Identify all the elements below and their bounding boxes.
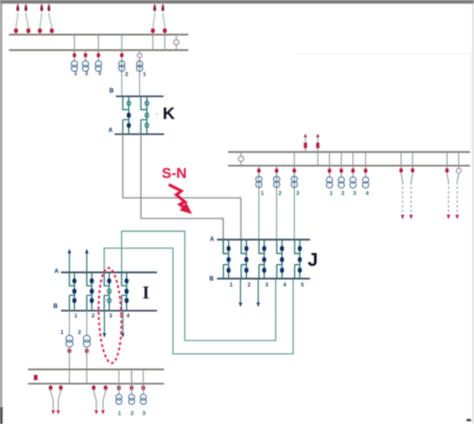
load feeder J2 (arrow down) (257, 279, 260, 307)
svg-text:A: A (54, 269, 59, 275)
busbar E1 (right, bus 1) (228, 151, 470, 153)
breaker bay J5 (295, 240, 302, 279)
breaker bay I3 (104, 272, 111, 310)
label 3 (bay I3) (109, 314, 112, 320)
svg-text:3: 3 (265, 283, 268, 289)
border left bar (0, 4, 3, 424)
fault lightning arrow S-N (169, 185, 192, 214)
label A (section J) (210, 237, 215, 243)
bus tie wire (73, 35, 75, 51)
svg-text:K: K (163, 104, 176, 123)
line feeder L2 (top-left, outgoing up) (24, 4, 30, 34)
wire K2 to J bay 1 (141, 134, 229, 253)
svg-text:1: 1 (74, 71, 77, 77)
label 2 (bay J2) (247, 283, 250, 289)
wire I bay4 to J bay4 (inner loop) (122, 231, 276, 340)
transformer feeder 2 (right group) (338, 152, 344, 197)
label I (142, 283, 149, 303)
busbar I-A (61, 271, 157, 273)
load feeder (bottom, arrow down) (101, 385, 107, 414)
label B (section K) (109, 89, 114, 95)
line feeder (right, outgoing up) (316, 134, 319, 152)
label 2 (bay I2) (92, 314, 95, 320)
load feeder I4 (arrow down) (121, 311, 124, 338)
load feeder (bottom, arrow down) (57, 385, 63, 414)
svg-text:A: A (210, 237, 215, 243)
bus tie wire (152, 35, 154, 51)
label 1 (bay J1) (230, 283, 233, 289)
source feeder I1 (arrow up) (68, 249, 71, 273)
label K (156, 104, 176, 123)
border top bar (0, 0, 474, 4)
label 4 (bay I4) (126, 314, 130, 320)
breaker bay J2 (241, 240, 248, 279)
transformer T2 feeder (right, to section J) (274, 166, 282, 240)
breaker bay I4 (122, 272, 129, 310)
wire I bay3 to J bay5 (outer loop) (104, 248, 293, 354)
svg-text:2: 2 (78, 330, 81, 336)
busbar K-B (116, 95, 164, 97)
svg-text:J: J (308, 249, 318, 270)
busbar W2 (top-left, bus 2) (9, 49, 188, 51)
bus tie wire (317, 152, 319, 166)
svg-text:S-N: S-N (162, 166, 187, 182)
svg-text:1: 1 (230, 283, 233, 289)
svg-text:3: 3 (109, 314, 112, 320)
line feeder (right, outgoing up) (304, 134, 307, 152)
transformer T3 feeder (right, to section J) (291, 166, 299, 240)
load feeder J1 (arrow down) (239, 279, 242, 307)
svg-text:2: 2 (125, 72, 128, 78)
svg-text:1: 1 (143, 72, 146, 78)
svg-text:B: B (209, 277, 214, 283)
breaker bay K1 (123, 96, 131, 134)
line feeder L3 (top-left, outgoing up) (38, 4, 43, 34)
bus section marker (red) (34, 375, 38, 380)
transformer feeder 4 (right group) (363, 152, 370, 197)
svg-text:5: 5 (301, 283, 304, 289)
svg-text:2: 2 (247, 283, 250, 289)
busbar J-A (217, 239, 310, 241)
label A (section K) (108, 128, 113, 134)
transformer feeder 3 (bottom) (140, 369, 146, 416)
busbar S2 (bottom, bus 2) (28, 383, 164, 385)
bus tie wire (131, 369, 133, 383)
source feeder I2 (arrow up) (85, 249, 88, 273)
svg-text:3: 3 (98, 71, 101, 77)
busbar I-B (61, 310, 157, 312)
svg-text:1: 1 (118, 411, 121, 417)
label 1 (bay I1) (74, 314, 77, 320)
load feeder I3 (arrow down) (103, 311, 106, 338)
svg-text:2: 2 (85, 71, 88, 77)
svg-text:B: B (109, 89, 114, 95)
border right line (472, 4, 473, 424)
svg-text:3: 3 (296, 191, 299, 197)
label 3 (bay J3) (265, 283, 268, 289)
transformer feeder 2 (section I to bottom bus) (78, 311, 90, 384)
transformer feeder 1 (section I to bottom bus) (60, 311, 72, 384)
load feeder (right, dashed arrow down) (409, 152, 414, 219)
load feeder (right, dashed arrow down) (455, 152, 461, 219)
busbar K-A (115, 133, 165, 135)
border bottom-right tick (467, 419, 472, 421)
busbar W1 (top-left, bus 1) (9, 34, 188, 36)
svg-text:3: 3 (142, 411, 145, 417)
transformer feeder 1 (right group) (326, 152, 332, 197)
svg-text:1: 1 (74, 314, 77, 320)
load feeder (right, dashed arrow down) (445, 152, 450, 219)
label B (section J) (209, 277, 214, 283)
breaker bay K2 (141, 96, 149, 134)
label 5 (bay J5) (301, 283, 304, 289)
busbar S1 (bottom, bus 1) (28, 368, 164, 370)
load feeder (bottom, arrow down) (92, 385, 98, 414)
transformer feeder 1 (bottom) (116, 369, 122, 416)
breaker bay J4 (277, 240, 284, 279)
transformer T2 feeder (top-left) (82, 50, 88, 77)
label J (308, 249, 318, 270)
transformer T3 feeder (top-left) (95, 50, 101, 77)
line feeder L5 (top-left, outgoing up) (151, 4, 156, 34)
line feeder L4 (top-left, outgoing up) (47, 4, 53, 34)
line feeder L6 (top-left, outgoing up) (161, 4, 166, 34)
breaker bay J3 (259, 240, 266, 279)
transformer T1 feeder (right, to section J) (256, 166, 264, 240)
transformer feeder 1 (to section K) (137, 50, 146, 96)
label S-N (162, 166, 187, 182)
svg-text:A: A (108, 128, 113, 134)
svg-text:B: B (53, 304, 58, 310)
svg-text:1: 1 (330, 191, 333, 197)
svg-text:1: 1 (60, 330, 63, 336)
svg-text:2: 2 (131, 411, 134, 417)
svg-text:2: 2 (278, 191, 281, 197)
bus tie wire (164, 35, 166, 51)
transformer feeder 3 (right group) (350, 152, 356, 197)
svg-text:2: 2 (92, 314, 95, 320)
transformer feeder 2 (to section K) (119, 50, 128, 96)
load feeder (bottom, arrow down) (49, 385, 55, 414)
svg-text:1: 1 (261, 191, 264, 197)
svg-text:I: I (142, 283, 149, 303)
load feeder (right, dashed arrow down) (399, 152, 404, 219)
wire K1 to J bus A (123, 134, 241, 239)
busbar E2 (right, bus 2) (228, 165, 470, 167)
bus coupler breaker (top-left) (174, 35, 179, 51)
svg-text:2: 2 (341, 191, 344, 197)
line feeder L1 (top-left, outgoing up) (14, 4, 19, 34)
breaker bay I2 (87, 272, 94, 310)
bus tie wire (121, 35, 123, 51)
busbar J-B (217, 278, 310, 280)
transformer T1 feeder (top-left) (71, 50, 77, 77)
bus tie wire (97, 35, 99, 51)
breaker bay J1 (223, 240, 230, 279)
bus tie wire (293, 152, 295, 166)
fault highlight dashed ellipse (97, 268, 123, 364)
svg-text:3: 3 (353, 191, 356, 197)
breaker bay I1 (69, 272, 76, 310)
transformer feeder 2 (bottom) (129, 369, 135, 416)
label A (section I) (54, 269, 59, 275)
label B (section I) (53, 304, 58, 310)
bus coupler breaker (right) (238, 152, 243, 166)
faint box edge (297, 54, 471, 151)
label 4 (bay J4) (283, 283, 287, 289)
